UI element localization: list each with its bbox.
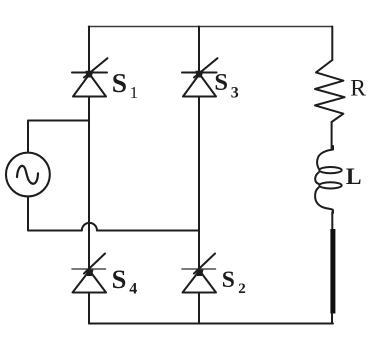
svg-text:L: L — [346, 164, 362, 190]
wire crossover hop — [82, 223, 97, 231]
wire source to middle leg — [97, 230, 198, 232]
wire middle leg top stub — [198, 27, 200, 72]
wire bold segment (load lead) — [330, 229, 335, 314]
wire right leg bottom — [331, 314, 333, 324]
AC source V — [6, 153, 50, 197]
svg-text:4: 4 — [129, 281, 137, 298]
svg-text:S: S — [214, 69, 228, 96]
wire top rail — [89, 26, 333, 28]
thyristor S1 — [72, 58, 108, 96]
wire between R and L — [331, 122, 333, 149]
wire left leg middle — [88, 97, 90, 269]
resistor R — [315, 60, 345, 122]
wire middle leg middle — [198, 97, 200, 269]
svg-text:S: S — [112, 67, 127, 98]
wire right leg top stub — [331, 27, 333, 61]
thyristor S2 — [182, 254, 216, 293]
wire left leg bottom — [88, 293, 90, 324]
wire middle leg bottom — [198, 293, 200, 324]
svg-text:2: 2 — [238, 281, 246, 297]
svg-text:S: S — [112, 264, 127, 294]
wire between L and bold segment — [331, 212, 333, 229]
svg-text:S: S — [222, 267, 235, 293]
wire left leg top stub — [88, 27, 90, 72]
thyristor S4 — [72, 254, 106, 293]
thyristor S3 — [182, 58, 218, 96]
wire source top lead — [28, 121, 89, 152]
wire bottom rail — [89, 323, 333, 325]
svg-text:3: 3 — [231, 85, 239, 102]
wire source bottom lead — [28, 197, 82, 230]
inductor L — [315, 146, 342, 213]
svg-text:1: 1 — [130, 83, 139, 102]
svg-text:R: R — [350, 75, 366, 101]
